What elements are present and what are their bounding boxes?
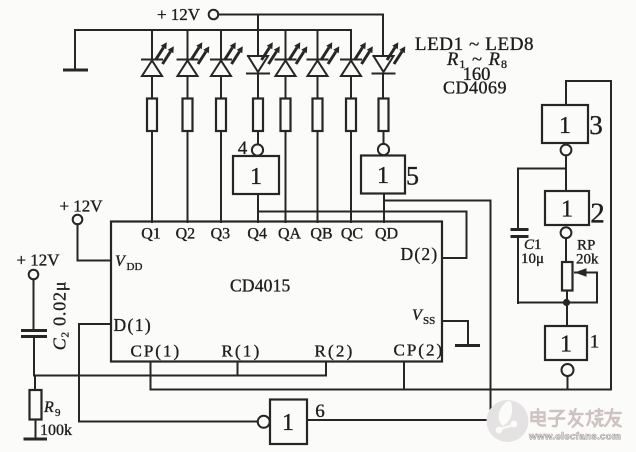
svg-text:D(1): D(1) [114,315,153,335]
svg-text:1: 1 [377,163,389,189]
svg-text:9: 9 [55,407,61,419]
svg-text:QD: QD [375,226,398,243]
svg-text:6: 6 [315,401,325,422]
svg-text:5: 5 [406,162,419,191]
svg-text:3: 3 [589,110,603,140]
svg-text:1: 1 [559,113,571,139]
svg-text:Q2: Q2 [176,226,196,243]
svg-text:CP(1): CP(1) [131,342,182,361]
svg-text:CP(2): CP(2) [394,341,445,360]
svg-text:10μ: 10μ [521,251,544,267]
svg-text:R(1): R(1) [222,342,262,361]
svg-text:+ 12V: + 12V [16,251,60,270]
svg-text:D(2): D(2) [401,244,439,264]
svg-text:DD: DD [127,261,143,273]
svg-text:4: 4 [238,138,248,159]
svg-text:2: 2 [590,198,605,230]
svg-text:QC: QC [341,226,363,243]
svg-text:100k: 100k [40,422,72,439]
svg-text:CD4069: CD4069 [443,78,507,98]
svg-text:+ 12V: + 12V [157,5,201,24]
svg-text:R(2): R(2) [315,342,355,361]
svg-text:Q1: Q1 [141,226,161,243]
svg-text:www.elecfans.com: www.elecfans.com [528,432,621,443]
svg-text:SS: SS [423,315,435,327]
svg-text:CD4015: CD4015 [230,276,291,296]
svg-text:Q3: Q3 [211,226,231,243]
svg-text:QA: QA [278,226,302,243]
svg-text:1: 1 [250,164,262,190]
svg-text:1: 1 [561,197,573,223]
svg-text:C2 0.02μ: C2 0.02μ [50,281,72,351]
svg-text:+ 12V: + 12V [59,197,103,216]
svg-text:Q4: Q4 [247,226,267,243]
svg-text:1: 1 [560,332,572,358]
svg-text:1: 1 [590,332,600,353]
svg-text:20k: 20k [576,252,599,268]
svg-text:1: 1 [282,410,294,436]
svg-text:R: R [43,399,54,416]
svg-text:QB: QB [310,226,332,243]
